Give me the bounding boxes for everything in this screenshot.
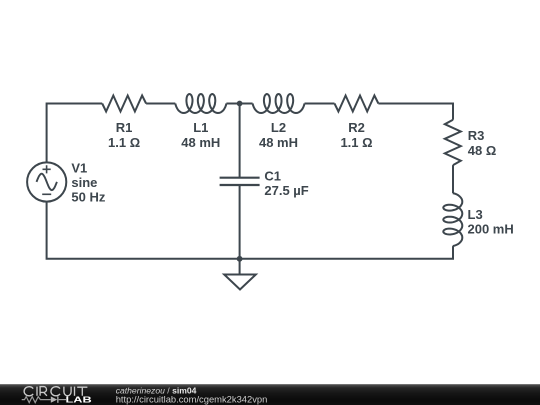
svg-text:1.1 Ω: 1.1 Ω: [340, 135, 372, 150]
svg-text:L2: L2: [271, 120, 286, 135]
logo letter U: [64, 387, 71, 396]
voltage source V1 circle: [27, 162, 66, 201]
svg-text:200 mH: 200 mH: [468, 222, 514, 237]
capacitor C1 branch wire bottom: [239, 186, 241, 259]
wire R3 to L3: [452, 165, 454, 193]
svg-text:48 Ω: 48 Ω: [468, 143, 497, 158]
logo letter C2: [51, 387, 60, 396]
capacitor C1 branch wire top: [239, 104, 241, 178]
logo diode: [51, 396, 59, 402]
footer black bar: [0, 384, 540, 405]
svg-text:R1: R1: [116, 120, 133, 135]
resistor R1: [102, 96, 146, 112]
svg-text:50 Hz: 50 Hz: [71, 190, 105, 205]
svg-text:48 mH: 48 mH: [181, 135, 220, 150]
voltage source V1 plus sign: [43, 165, 51, 173]
capacitor C1 plates: [220, 178, 260, 185]
wire L2 to R2: [305, 103, 335, 105]
wire L3 to bottom-right corner: [240, 246, 453, 259]
resistor R3: [445, 120, 461, 165]
logo wire to LAB: [59, 399, 66, 401]
svg-text:L1: L1: [193, 120, 208, 135]
svg-text:1.1 Ω: 1.1 Ω: [108, 135, 140, 150]
logo letter C: [24, 387, 33, 396]
svg-text:sine: sine: [71, 175, 97, 190]
logo letter T: [77, 387, 87, 396]
svg-text:R3: R3: [468, 128, 485, 143]
wire R2 to top-right corner: [378, 104, 453, 120]
svg-text:V1: V1: [71, 161, 87, 176]
logo letter I: [36, 387, 38, 396]
node A junction dot: [237, 101, 243, 107]
wire top-left: source to R1: [47, 104, 103, 163]
wire R1 to L1: [146, 103, 175, 105]
svg-text:27.5 µF: 27.5 µF: [264, 183, 308, 198]
logo resistor squiggle: [22, 397, 51, 403]
inductor L2: [253, 94, 305, 113]
wire L1 to node A: [226, 103, 252, 105]
inductor L3: [443, 193, 462, 246]
voltage source V1 minus sign: [42, 193, 51, 195]
wire bottom-left: ground node to source: [47, 202, 240, 259]
inductor L1: [175, 94, 226, 113]
svg-text:48 mH: 48 mH: [259, 135, 298, 150]
svg-text:L3: L3: [468, 207, 483, 222]
svg-text:C1: C1: [264, 169, 281, 184]
ground symbol: [224, 259, 256, 290]
logo letter I2: [74, 387, 76, 396]
voltage source V1 sine wave: [37, 174, 57, 190]
logo letter R: [40, 387, 47, 396]
svg-text:R2: R2: [348, 120, 365, 135]
resistor R2: [335, 96, 379, 112]
node B junction dot: [237, 256, 243, 262]
